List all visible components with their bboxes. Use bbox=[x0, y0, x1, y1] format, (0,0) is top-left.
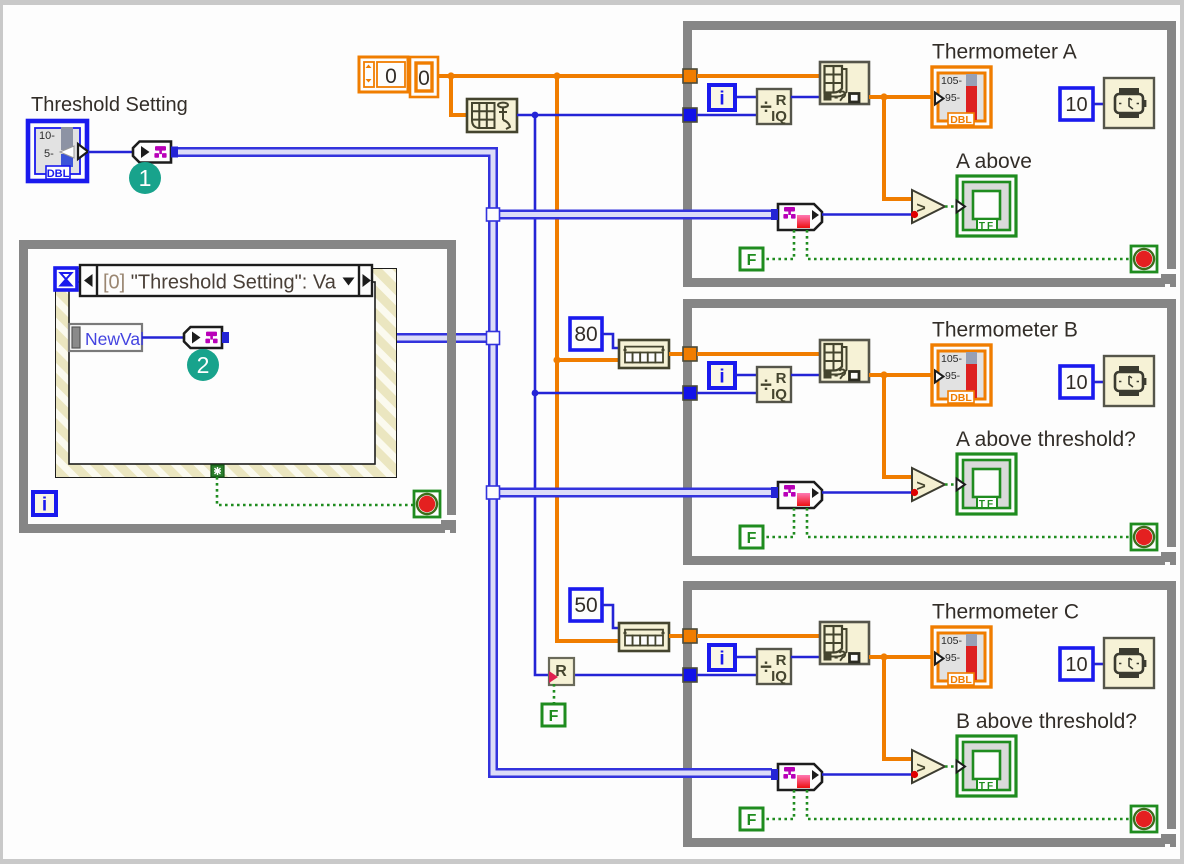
function set threshold C bbox=[619, 623, 669, 651]
svg-text:105-: 105- bbox=[941, 635, 963, 647]
loop C function index array bbox=[820, 622, 869, 664]
loop B thermometer indicator bbox=[932, 345, 991, 405]
function obtain notifier bbox=[467, 99, 517, 132]
control Threshold Setting (slider, DBL) bbox=[28, 121, 88, 181]
loop B function quotient & remainder bbox=[757, 367, 791, 403]
loop C function wait next ms multiple bbox=[1104, 638, 1154, 688]
svg-text:95-: 95- bbox=[945, 370, 961, 382]
loop B orange junction dot bbox=[880, 371, 887, 378]
while loop (event) frame bbox=[19, 240, 456, 533]
svg-text:F: F bbox=[747, 530, 757, 547]
loop C wire i to quotient bbox=[735, 656, 757, 659]
loop B stop pin wire to loop stop bbox=[807, 508, 1130, 537]
loop B function wait next ms multiple bbox=[1104, 356, 1154, 406]
constant F (release) bbox=[542, 704, 565, 726]
loop C loop condition stop bbox=[1131, 806, 1157, 832]
blue branch to loop B bbox=[535, 392, 683, 395]
event structure header selector bbox=[80, 265, 372, 296]
svg-text:1: 1 bbox=[139, 165, 152, 191]
loop B orange wire to index bbox=[697, 352, 820, 356]
loop A function quotient & remainder bbox=[757, 89, 791, 125]
loop C wire 10 to wait bbox=[1093, 663, 1104, 666]
loop C orange junction dot bbox=[880, 653, 887, 660]
svg-text:IQ: IQ bbox=[771, 668, 787, 685]
loop condition stop (event loop) bbox=[414, 491, 440, 517]
svg-text:Thermometer C: Thermometer C bbox=[932, 601, 1079, 624]
loop B compare output wire bbox=[945, 483, 957, 486]
svg-text:50: 50 bbox=[574, 594, 597, 617]
loop A stop pin wire to loop stop bbox=[807, 230, 1130, 259]
loop A compare output wire bbox=[945, 205, 957, 208]
loop C blue wire to quotient bbox=[697, 674, 757, 677]
loop A function index array bbox=[820, 62, 869, 104]
loop B orange drop to compare bbox=[884, 375, 911, 477]
orange junction dot bbox=[553, 72, 560, 79]
svg-text:DBL: DBL bbox=[950, 114, 972, 126]
while loop C frame bbox=[683, 581, 1176, 847]
svg-text:TF: TF bbox=[979, 781, 995, 792]
loop C orange wire to index bbox=[697, 634, 820, 638]
loop C orange drop to compare bbox=[884, 657, 911, 759]
constant 80 bbox=[570, 318, 602, 350]
loop A blue tunnel bbox=[683, 108, 697, 122]
loop B boolean indicator bbox=[957, 454, 1017, 514]
svg-text:10: 10 bbox=[1065, 654, 1087, 676]
node 2 send notification bbox=[184, 327, 229, 348]
loop B constant F bbox=[740, 526, 763, 548]
notifier wire branch loop B bbox=[493, 488, 772, 498]
loop C iteration terminal i bbox=[709, 645, 735, 670]
loop A constant 10 bbox=[1060, 88, 1093, 120]
orange vertical trunk bbox=[557, 76, 619, 641]
loop B wire quotient to index bbox=[791, 374, 820, 377]
wire tunnel to loop stop bbox=[217, 477, 414, 505]
loop C constant 10 bbox=[1060, 648, 1093, 680]
svg-text:80: 80 bbox=[574, 323, 597, 346]
loop C function wait on notification bbox=[771, 764, 822, 790]
orange wire main top run bbox=[438, 74, 683, 78]
wire 80 to icon B bbox=[602, 334, 619, 348]
loop A wire wait to compare bbox=[822, 213, 911, 216]
svg-text:105-: 105- bbox=[941, 353, 963, 365]
loop A boolean indicator bbox=[957, 176, 1017, 236]
loop A orange wire to index bbox=[697, 74, 820, 78]
loop C function greater-than bbox=[911, 750, 945, 783]
loop A iteration terminal i bbox=[709, 85, 735, 110]
svg-text:95-: 95- bbox=[945, 92, 961, 104]
event data node NewVal bbox=[69, 324, 144, 351]
svg-text:IQ: IQ bbox=[771, 386, 787, 403]
loop B ignore-previous pin wire bbox=[763, 508, 794, 537]
orange wire drop to obtain icon bbox=[451, 76, 467, 115]
loop B wire wait to compare bbox=[822, 491, 911, 494]
svg-text:[0] "Threshold Setting": Va: [0] "Threshold Setting": Va bbox=[103, 272, 337, 294]
event timeout terminal bbox=[55, 268, 77, 290]
loop C stop pin wire to loop stop bbox=[807, 790, 1130, 819]
wire obtain to loop A bbox=[517, 114, 683, 117]
orange icon C out bbox=[669, 634, 683, 638]
svg-text:i: i bbox=[719, 649, 724, 670]
loop C compare output wire bbox=[945, 765, 957, 768]
svg-text:i: i bbox=[719, 89, 724, 110]
orange branch to icon B bbox=[557, 358, 619, 362]
svg-text:i: i bbox=[719, 367, 724, 388]
event structure frame bbox=[56, 269, 396, 477]
constant 50 bbox=[570, 589, 602, 621]
svg-text:10: 10 bbox=[1065, 372, 1087, 394]
svg-text:Threshold Setting: Threshold Setting bbox=[31, 94, 188, 116]
loop B function wait on notification bbox=[771, 482, 822, 508]
svg-text:i: i bbox=[42, 495, 47, 516]
wire junction bbox=[487, 208, 500, 221]
wire 50 to icon C bbox=[602, 605, 619, 628]
svg-text:10: 10 bbox=[1065, 94, 1087, 116]
blue junction dot B bbox=[532, 390, 539, 397]
orange icon B out bbox=[669, 352, 683, 356]
loop A orange tunnel bbox=[683, 69, 697, 83]
svg-text:IQ: IQ bbox=[771, 108, 787, 125]
svg-text:105-: 105- bbox=[941, 75, 963, 87]
function set threshold B bbox=[619, 340, 669, 368]
svg-text:0: 0 bbox=[385, 65, 397, 88]
loop B constant 10 bbox=[1060, 366, 1093, 398]
while loop B frame bbox=[683, 299, 1176, 565]
svg-text:5-: 5- bbox=[44, 148, 54, 160]
function release notifier R bbox=[549, 658, 574, 685]
svg-text:TF: TF bbox=[979, 499, 995, 510]
svg-text:B above threshold?: B above threshold? bbox=[956, 710, 1137, 733]
wire junction bbox=[487, 332, 500, 345]
loop C boolean indicator bbox=[957, 736, 1017, 796]
loop B function index array bbox=[820, 340, 869, 382]
loop C function quotient & remainder bbox=[757, 649, 791, 685]
node 1 send notification bbox=[133, 142, 178, 163]
loop B orange tunnel bbox=[683, 347, 697, 361]
notifier wire main bbox=[178, 152, 772, 773]
loop A loop condition stop bbox=[1131, 246, 1157, 272]
svg-text:95-: 95- bbox=[945, 652, 961, 664]
notifier wire from event node 2 bbox=[228, 333, 493, 343]
loop C constant F bbox=[740, 808, 763, 830]
loop B wire 10 to wait bbox=[1093, 381, 1104, 384]
loop A blue wire to quotient bbox=[697, 114, 757, 117]
step marker 2 bbox=[187, 349, 219, 381]
svg-text:A above: A above bbox=[956, 150, 1032, 173]
wire R to F constant bbox=[553, 684, 556, 704]
svg-text:F: F bbox=[747, 252, 757, 269]
loop C ignore-previous pin wire bbox=[763, 790, 794, 819]
loop A wire quotient to index bbox=[791, 96, 820, 99]
svg-text:F: F bbox=[747, 812, 757, 829]
svg-text:TF: TF bbox=[979, 221, 995, 232]
loop A constant F bbox=[740, 248, 763, 270]
blue vertical trunk bbox=[535, 115, 683, 675]
svg-text:R: R bbox=[776, 92, 787, 109]
wire control to node 1 bbox=[88, 151, 134, 154]
loop B iteration terminal i bbox=[709, 363, 735, 388]
loop C wire quotient to index bbox=[791, 656, 820, 659]
svg-text:R: R bbox=[776, 652, 787, 669]
svg-text:Thermometer B: Thermometer B bbox=[932, 319, 1078, 342]
iteration terminal i (event loop) bbox=[33, 492, 56, 516]
loop A wire 10 to wait bbox=[1093, 103, 1104, 106]
loop B orange index out bbox=[869, 373, 931, 377]
notifier wire branch loop A bbox=[493, 210, 772, 220]
loop A orange junction dot bbox=[880, 93, 887, 100]
loop C thermometer indicator bbox=[932, 627, 991, 687]
loop B blue tunnel bbox=[683, 386, 697, 400]
svg-text:A above threshold?: A above threshold? bbox=[956, 428, 1136, 451]
loop C orange index out bbox=[869, 655, 931, 659]
svg-text:DBL: DBL bbox=[950, 674, 972, 686]
svg-text:10-: 10- bbox=[39, 130, 55, 142]
svg-text:R: R bbox=[776, 370, 787, 387]
loop B function greater-than bbox=[911, 468, 945, 501]
loop C orange tunnel bbox=[683, 629, 697, 643]
while loop A frame bbox=[683, 21, 1176, 287]
loop A ignore-previous pin wire bbox=[763, 230, 794, 259]
loop B blue wire to quotient bbox=[697, 392, 757, 395]
orange junction dot bbox=[447, 72, 454, 79]
svg-text:2: 2 bbox=[197, 352, 210, 378]
wire NewVal to node 2 bbox=[142, 336, 183, 339]
svg-text:F: F bbox=[549, 708, 559, 725]
loop A orange drop to compare bbox=[884, 97, 911, 199]
loop A thermometer indicator bbox=[932, 67, 991, 127]
step marker 1 bbox=[129, 162, 161, 194]
loop A function wait on notification bbox=[771, 204, 822, 230]
svg-text:DBL: DBL bbox=[47, 168, 70, 180]
loop A function greater-than bbox=[911, 190, 945, 223]
svg-text:NewVal: NewVal bbox=[85, 329, 144, 349]
svg-text:0: 0 bbox=[418, 67, 430, 90]
loop C wire wait to compare bbox=[822, 773, 911, 776]
loop B loop condition stop bbox=[1131, 524, 1157, 550]
event structure output tunnel bbox=[211, 465, 224, 477]
loop A orange index out bbox=[869, 95, 931, 99]
wire junction bbox=[487, 486, 500, 499]
orange junction dot B bbox=[553, 356, 560, 363]
loop B wire i to quotient bbox=[735, 374, 757, 377]
svg-text:Thermometer A: Thermometer A bbox=[932, 41, 1077, 64]
loop A wire i to quotient bbox=[735, 96, 757, 99]
loop A function wait next ms multiple bbox=[1104, 78, 1154, 128]
svg-text:DBL: DBL bbox=[950, 392, 972, 404]
loop C blue tunnel bbox=[683, 668, 697, 682]
array constant [0] bbox=[359, 57, 408, 92]
numeric constant 0 bbox=[410, 57, 438, 97]
blue junction dot bbox=[532, 112, 539, 119]
